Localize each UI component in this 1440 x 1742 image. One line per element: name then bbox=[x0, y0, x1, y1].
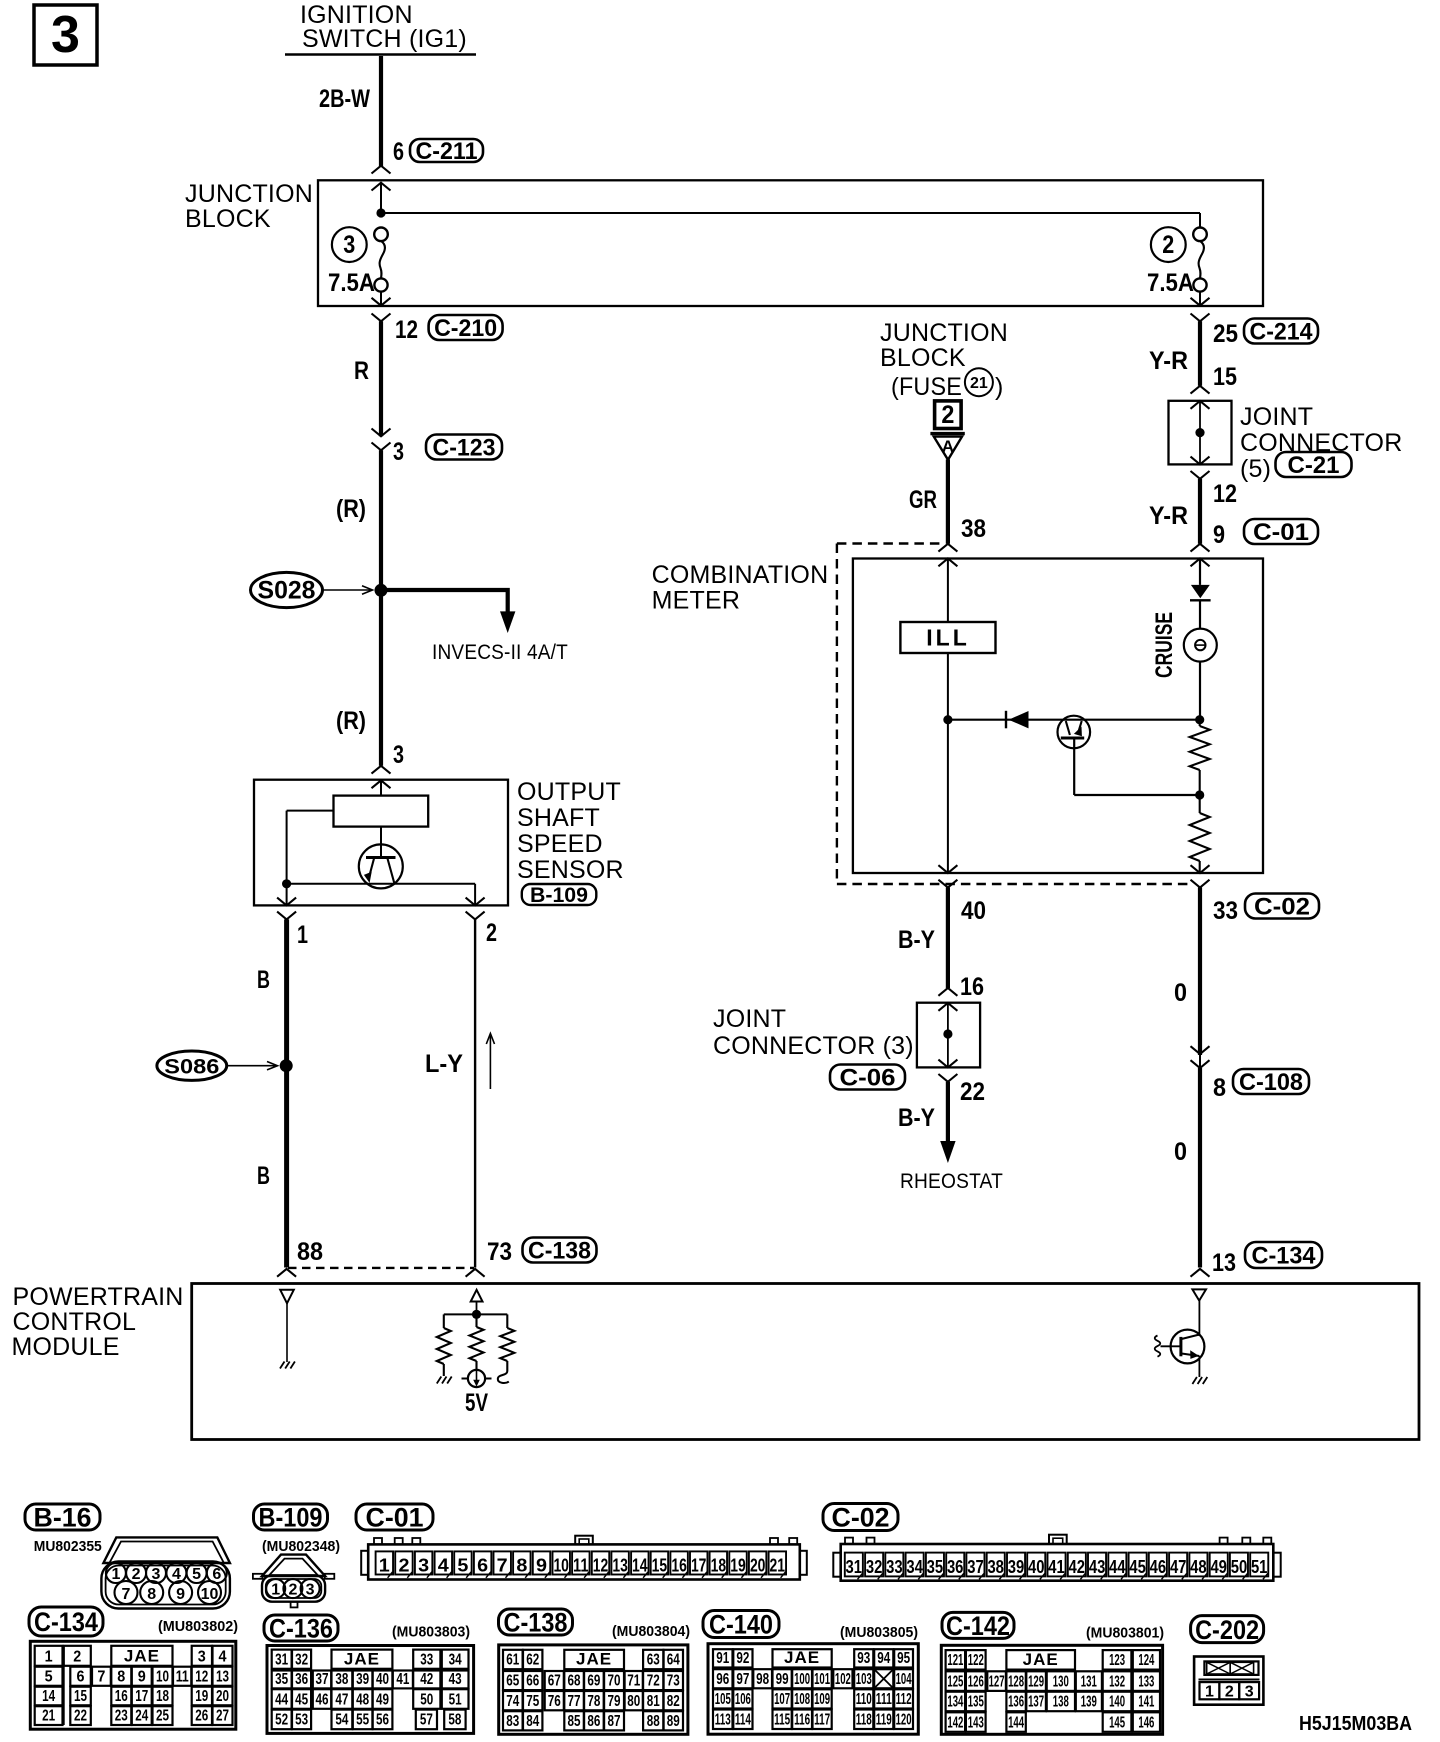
svg-text:9: 9 bbox=[176, 1586, 185, 1603]
svg-text:2: 2 bbox=[132, 1566, 141, 1583]
svg-text:110: 110 bbox=[856, 1691, 872, 1708]
svg-text:POWERTRAIN: POWERTRAIN bbox=[13, 1283, 184, 1311]
PCM 5V pull-up source bbox=[462, 1314, 492, 1417]
wire (R) lower segment bbox=[379, 590, 383, 766]
svg-text:26: 26 bbox=[195, 1708, 208, 1725]
svg-text:3: 3 bbox=[343, 231, 355, 259]
svg-text:B-Y: B-Y bbox=[898, 926, 935, 954]
svg-text:C-210: C-210 bbox=[434, 315, 497, 342]
svg-text:38: 38 bbox=[335, 1671, 348, 1688]
svg-text:2: 2 bbox=[1162, 231, 1174, 259]
sensor lead to transistor bbox=[380, 827, 382, 857]
svg-text:129: 129 bbox=[1028, 1673, 1044, 1690]
svg-text:77: 77 bbox=[568, 1693, 581, 1710]
connector C-140 pin grid bbox=[708, 1644, 918, 1735]
svg-text:105: 105 bbox=[715, 1691, 731, 1708]
svg-text:53: 53 bbox=[295, 1712, 308, 1729]
svg-text:114: 114 bbox=[735, 1712, 751, 1729]
svg-text:11: 11 bbox=[176, 1668, 189, 1685]
svg-text:46: 46 bbox=[1150, 1557, 1167, 1577]
svg-text:127: 127 bbox=[989, 1673, 1005, 1690]
wire label Y-R upper bbox=[1149, 347, 1188, 375]
svg-text:JUNCTION: JUNCTION bbox=[880, 319, 1008, 347]
svg-text:20: 20 bbox=[750, 1555, 766, 1575]
svg-text:ILL: ILL bbox=[926, 625, 970, 651]
svg-text:134: 134 bbox=[947, 1694, 963, 1711]
wire: fuse 3 to C-210 bbox=[380, 292, 382, 306]
svg-text:34: 34 bbox=[906, 1557, 923, 1577]
diode D1 (pointing left) bbox=[1006, 711, 1029, 729]
connector into combination meter pin 9 bbox=[1191, 544, 1210, 567]
pin label 22 bbox=[960, 1078, 985, 1106]
wire Y-R (C-214 to C-21) bbox=[1198, 321, 1202, 386]
wire label 2B-W bbox=[319, 85, 370, 113]
svg-text:82: 82 bbox=[667, 1693, 680, 1710]
svg-text:61: 61 bbox=[506, 1652, 519, 1669]
svg-text:113: 113 bbox=[715, 1712, 731, 1729]
svg-text:(5): (5) bbox=[1240, 455, 1271, 483]
svg-text:38: 38 bbox=[987, 1557, 1004, 1577]
connector B-109 face view bbox=[253, 1555, 334, 1608]
part number MU803805 bbox=[840, 1624, 918, 1641]
svg-text:95: 95 bbox=[897, 1650, 910, 1667]
svg-text:51: 51 bbox=[1251, 1557, 1268, 1577]
joint connector (3) box bbox=[917, 1003, 980, 1068]
svg-text:102: 102 bbox=[835, 1671, 851, 1688]
svg-text:JAE: JAE bbox=[576, 1650, 612, 1669]
svg-text:A: A bbox=[942, 437, 954, 456]
svg-text:109: 109 bbox=[814, 1691, 830, 1708]
RHEOSTAT label bbox=[900, 1170, 1003, 1193]
svg-text:12: 12 bbox=[395, 316, 418, 344]
svg-text:118: 118 bbox=[856, 1712, 872, 1729]
svg-text:103: 103 bbox=[856, 1671, 872, 1688]
svg-text:3: 3 bbox=[306, 1581, 315, 1598]
svg-text:Y-R: Y-R bbox=[1149, 502, 1188, 530]
PCM pin 88 ground bbox=[279, 1290, 295, 1369]
sensor pickup element bbox=[334, 796, 429, 827]
connector C-202 face view bbox=[1194, 1657, 1263, 1705]
svg-text:131: 131 bbox=[1081, 1673, 1097, 1690]
svg-text:C-06: C-06 bbox=[840, 1065, 896, 1092]
svg-text:6: 6 bbox=[212, 1566, 221, 1583]
wire ILL to pin 40 bbox=[947, 653, 949, 873]
svg-text:123: 123 bbox=[1109, 1652, 1125, 1669]
connector B-16 face view bbox=[101, 1537, 230, 1608]
svg-text:R: R bbox=[354, 357, 369, 385]
output shaft speed sensor box B-109 bbox=[254, 780, 508, 906]
svg-text:C-01: C-01 bbox=[1253, 519, 1309, 546]
svg-text:96: 96 bbox=[716, 1671, 729, 1688]
svg-text:17: 17 bbox=[691, 1555, 707, 1575]
svg-text:21: 21 bbox=[970, 375, 988, 392]
svg-text:141: 141 bbox=[1138, 1694, 1154, 1711]
wire B (pin1 to PCM 88) bbox=[284, 919, 289, 1267]
svg-text:85: 85 bbox=[568, 1713, 581, 1730]
svg-text:31: 31 bbox=[846, 1557, 863, 1577]
svg-text:33: 33 bbox=[886, 1557, 903, 1577]
svg-text:0: 0 bbox=[1174, 1138, 1187, 1166]
svg-text:135: 135 bbox=[968, 1694, 984, 1711]
svg-text:BLOCK: BLOCK bbox=[185, 205, 271, 233]
node R1/R2 bbox=[1195, 790, 1204, 799]
part number MU803802 bbox=[158, 1618, 238, 1635]
svg-text:25: 25 bbox=[156, 1708, 169, 1725]
svg-text:7.5A: 7.5A bbox=[1147, 269, 1194, 297]
svg-text:55: 55 bbox=[356, 1712, 369, 1729]
svg-text:C-02: C-02 bbox=[1254, 894, 1310, 921]
splice S028 bbox=[251, 572, 388, 607]
svg-text:40: 40 bbox=[961, 897, 986, 925]
svg-text:50: 50 bbox=[420, 1691, 433, 1708]
wire L-Y end at connector C-138 pin 73 bbox=[466, 1269, 485, 1277]
svg-text:(MU803803): (MU803803) bbox=[392, 1624, 470, 1641]
svg-text:2: 2 bbox=[288, 1581, 297, 1598]
svg-text:2: 2 bbox=[1225, 1684, 1234, 1701]
svg-text:(FUSE: (FUSE bbox=[891, 373, 962, 401]
svg-text:41: 41 bbox=[1048, 1557, 1065, 1577]
svg-text:(MU803805): (MU803805) bbox=[840, 1624, 918, 1641]
junction block (fuse 21) label bbox=[880, 319, 1008, 401]
connector label B-109 bbox=[254, 1503, 328, 1533]
svg-text:88: 88 bbox=[647, 1713, 660, 1730]
svg-text:98: 98 bbox=[756, 1671, 769, 1688]
part number MU803804 bbox=[612, 1623, 690, 1640]
svg-text:7: 7 bbox=[97, 1668, 105, 1685]
svg-text:88: 88 bbox=[297, 1238, 323, 1266]
svg-text:12: 12 bbox=[593, 1555, 609, 1575]
wire label GR bbox=[909, 486, 937, 514]
connector C-210 pin 12 bbox=[372, 298, 503, 344]
pin label 33 and connector C-02 bbox=[1213, 894, 1319, 926]
svg-text:92: 92 bbox=[736, 1650, 749, 1667]
svg-text:3: 3 bbox=[51, 6, 80, 64]
svg-text:SENSOR: SENSOR bbox=[517, 856, 624, 884]
connector pin 3 into sensor bbox=[372, 741, 405, 788]
svg-text:44: 44 bbox=[1109, 1557, 1126, 1577]
splice S086 bbox=[157, 1051, 293, 1080]
svg-text:L-Y: L-Y bbox=[425, 1050, 463, 1078]
powertrain control module box bbox=[192, 1284, 1419, 1440]
svg-text:3: 3 bbox=[393, 741, 404, 769]
svg-text:142: 142 bbox=[947, 1714, 963, 1731]
svg-text:C-202: C-202 bbox=[1195, 1615, 1259, 1645]
wire label 0 lower bbox=[1174, 1138, 1187, 1166]
svg-text:C-21: C-21 bbox=[1288, 452, 1340, 479]
wire L-Y (pin2 to PCM 73) bbox=[474, 919, 476, 1267]
joint connector exit pin 12 bbox=[1191, 457, 1210, 479]
svg-text:45: 45 bbox=[1129, 1557, 1146, 1577]
svg-text:54: 54 bbox=[335, 1712, 348, 1729]
ignition switch (IG1) label bbox=[285, 1, 476, 55]
dashed connector line C-138 bbox=[288, 1267, 474, 1269]
svg-text:H5J15M03BA: H5J15M03BA bbox=[1299, 1713, 1412, 1735]
svg-text:97: 97 bbox=[736, 1671, 749, 1688]
svg-text:130: 130 bbox=[1053, 1673, 1069, 1690]
svg-text:5: 5 bbox=[45, 1668, 53, 1685]
connector C-108 pin 8 bbox=[1191, 1046, 1210, 1068]
svg-text:137: 137 bbox=[1028, 1694, 1044, 1711]
svg-text:0: 0 bbox=[1174, 979, 1187, 1007]
svg-text:JOINT: JOINT bbox=[1240, 403, 1313, 431]
svg-text:46: 46 bbox=[316, 1691, 329, 1708]
svg-text:50: 50 bbox=[1231, 1557, 1248, 1577]
svg-text:C-134: C-134 bbox=[34, 1607, 98, 1637]
connector label C-140 bbox=[703, 1610, 779, 1640]
svg-text:(R): (R) bbox=[336, 707, 366, 735]
svg-text:1: 1 bbox=[111, 1566, 120, 1583]
svg-text:): ) bbox=[995, 373, 1004, 401]
svg-text:32: 32 bbox=[295, 1651, 308, 1668]
svg-text:10: 10 bbox=[201, 1586, 219, 1603]
resistor R1 bbox=[1190, 720, 1210, 795]
svg-text:JAE: JAE bbox=[1023, 1650, 1059, 1669]
svg-text:66: 66 bbox=[526, 1673, 539, 1690]
svg-text:81: 81 bbox=[647, 1693, 660, 1710]
meter exit pin 33 bbox=[1191, 865, 1210, 887]
meter exit pin 40 bbox=[938, 865, 957, 887]
svg-text:19: 19 bbox=[195, 1688, 208, 1705]
svg-text:GR: GR bbox=[909, 486, 937, 514]
svg-text:2: 2 bbox=[486, 919, 497, 947]
svg-text:48: 48 bbox=[1190, 1557, 1207, 1577]
sheet number 3 bbox=[34, 5, 97, 65]
svg-text:JAE: JAE bbox=[124, 1646, 160, 1665]
svg-text:MODULE: MODULE bbox=[12, 1333, 120, 1361]
sheet code H5J15M03BA bbox=[1299, 1713, 1412, 1735]
svg-text:S086: S086 bbox=[164, 1056, 219, 1079]
svg-text:45: 45 bbox=[295, 1691, 308, 1708]
svg-text:METER: METER bbox=[652, 587, 741, 615]
svg-text:107: 107 bbox=[774, 1691, 790, 1708]
wire: junction block internal bus bbox=[376, 183, 1200, 228]
svg-text:80: 80 bbox=[627, 1693, 640, 1710]
svg-text:10: 10 bbox=[553, 1555, 569, 1575]
svg-text:68: 68 bbox=[568, 1673, 581, 1690]
connector C-136 pin grid bbox=[267, 1646, 474, 1734]
svg-text:31: 31 bbox=[275, 1651, 288, 1668]
svg-text:C-02: C-02 bbox=[832, 1503, 890, 1533]
svg-text:27: 27 bbox=[216, 1708, 229, 1725]
resistor R2 bbox=[1190, 795, 1210, 873]
svg-text:78: 78 bbox=[587, 1693, 600, 1710]
svg-text:42: 42 bbox=[420, 1671, 433, 1688]
svg-text:58: 58 bbox=[448, 1712, 461, 1729]
junction block box bbox=[318, 180, 1263, 306]
sensor pin 1 bbox=[277, 898, 308, 949]
pin label 15 bbox=[1213, 363, 1237, 391]
svg-text:69: 69 bbox=[587, 1673, 600, 1690]
part number MU803803 bbox=[392, 1624, 470, 1641]
combination meter label bbox=[652, 561, 829, 615]
signal direction arrow bbox=[486, 1034, 494, 1090]
sensor pin 2 bbox=[466, 898, 497, 947]
svg-text:22: 22 bbox=[74, 1708, 87, 1725]
svg-text:47: 47 bbox=[335, 1691, 348, 1708]
svg-text:43: 43 bbox=[1089, 1557, 1106, 1577]
svg-text:70: 70 bbox=[608, 1673, 621, 1690]
svg-text:23: 23 bbox=[115, 1708, 128, 1725]
svg-text:12: 12 bbox=[1213, 480, 1237, 508]
svg-text:2B-W: 2B-W bbox=[319, 85, 370, 113]
wire R (C-210 to C-123) bbox=[379, 321, 383, 436]
wire Y-R (C-21 to meter) bbox=[1198, 479, 1202, 544]
svg-text:5: 5 bbox=[192, 1566, 201, 1583]
svg-text:89: 89 bbox=[667, 1713, 680, 1730]
wire label 0 upper bbox=[1174, 979, 1187, 1007]
svg-text:B-Y: B-Y bbox=[898, 1104, 935, 1132]
svg-text:15: 15 bbox=[74, 1688, 87, 1705]
meter transistor Q1 bbox=[1058, 716, 1200, 795]
svg-text:3: 3 bbox=[393, 438, 404, 466]
svg-text:5: 5 bbox=[457, 1555, 468, 1575]
cruise diode (pointing down) bbox=[1190, 585, 1211, 600]
connector label C-134 bbox=[29, 1607, 103, 1637]
svg-text:(MU802348): (MU802348) bbox=[262, 1538, 340, 1555]
svg-text:B-16: B-16 bbox=[34, 1503, 92, 1533]
svg-text:33: 33 bbox=[420, 1651, 433, 1668]
svg-text:16: 16 bbox=[960, 973, 984, 1001]
wire to ILL unit bbox=[947, 559, 949, 623]
pin label 9 and connector C-01 bbox=[1213, 519, 1318, 549]
svg-text:(MU803801): (MU803801) bbox=[1086, 1625, 1164, 1642]
svg-text:25: 25 bbox=[1213, 320, 1238, 348]
wire label B-Y upper bbox=[898, 926, 935, 954]
svg-text:5V: 5V bbox=[465, 1389, 488, 1417]
PCM output transistor Q2 bbox=[1155, 1330, 1208, 1384]
svg-text:51: 51 bbox=[449, 1691, 462, 1708]
svg-text:9: 9 bbox=[1213, 521, 1225, 549]
svg-text:104: 104 bbox=[896, 1671, 912, 1688]
svg-text:124: 124 bbox=[1138, 1652, 1154, 1669]
svg-text:41: 41 bbox=[396, 1671, 409, 1688]
wire B-Y to rheostat arrow bbox=[940, 1082, 955, 1163]
svg-text:64: 64 bbox=[667, 1652, 680, 1669]
svg-text:8: 8 bbox=[117, 1668, 125, 1685]
svg-text:10: 10 bbox=[156, 1668, 169, 1685]
svg-text:20: 20 bbox=[216, 1688, 229, 1705]
PCM sense resistor with continuation hook bbox=[498, 1314, 515, 1383]
CRUISE indicator lamp bbox=[1184, 629, 1217, 662]
wire GR bbox=[946, 460, 950, 544]
powertrain control module label bbox=[12, 1283, 184, 1361]
svg-text:122: 122 bbox=[968, 1652, 984, 1669]
fuse 2 (7.5A) bbox=[1147, 227, 1207, 297]
pin label 13 and connector C-134 bbox=[1212, 1242, 1322, 1277]
svg-text:108: 108 bbox=[794, 1691, 810, 1708]
PCM pin 13 input bbox=[1192, 1289, 1206, 1336]
svg-text:48: 48 bbox=[356, 1691, 369, 1708]
INVECS-II 4A/T label bbox=[432, 641, 568, 664]
svg-text:87: 87 bbox=[608, 1713, 621, 1730]
connector C-01 face view bbox=[361, 1536, 807, 1580]
svg-text:101: 101 bbox=[814, 1671, 830, 1688]
connector into combination meter pin 38 bbox=[938, 544, 957, 567]
svg-text:2: 2 bbox=[73, 1648, 81, 1665]
part number MU802348 bbox=[262, 1538, 340, 1555]
svg-text:6: 6 bbox=[393, 138, 404, 166]
branch arrow to INVECS-II 4A/T bbox=[381, 590, 515, 633]
sensor internal lead left bbox=[287, 811, 334, 884]
svg-text:36: 36 bbox=[295, 1671, 308, 1688]
svg-text:7: 7 bbox=[122, 1586, 131, 1603]
joint connector (3) label C-06 bbox=[713, 1005, 914, 1092]
wire label L-Y bbox=[425, 1050, 463, 1078]
svg-text:43: 43 bbox=[449, 1671, 462, 1688]
power feed triangle A bbox=[930, 434, 964, 460]
svg-text:33: 33 bbox=[1213, 897, 1238, 925]
connector label C-01 bbox=[356, 1503, 433, 1533]
svg-text:B-109: B-109 bbox=[530, 884, 588, 907]
svg-text:52: 52 bbox=[275, 1712, 288, 1729]
sensor output transistor bbox=[359, 844, 403, 888]
connector C-134 pin grid bbox=[30, 1641, 236, 1729]
svg-text:C-140: C-140 bbox=[709, 1610, 773, 1640]
svg-text:91: 91 bbox=[716, 1650, 729, 1667]
wire 0 (C-108 to PCM 13) bbox=[1198, 1068, 1202, 1268]
svg-text:126: 126 bbox=[968, 1673, 984, 1690]
svg-text:115: 115 bbox=[774, 1712, 790, 1729]
svg-text:SHAFT: SHAFT bbox=[517, 804, 600, 832]
PCM pin 73 input node bbox=[444, 1290, 508, 1319]
wire B-Y upper bbox=[946, 888, 950, 989]
junction block label bbox=[185, 180, 313, 233]
svg-text:73: 73 bbox=[667, 1673, 680, 1690]
illumination lamp unit ILL bbox=[900, 622, 995, 653]
svg-text:100: 100 bbox=[794, 1671, 810, 1688]
svg-text:16: 16 bbox=[115, 1688, 128, 1705]
svg-text:13: 13 bbox=[1212, 1249, 1236, 1277]
svg-text:JUNCTION: JUNCTION bbox=[185, 180, 313, 208]
svg-text:2: 2 bbox=[399, 1555, 410, 1575]
combination meter inner box bbox=[853, 559, 1263, 874]
connector label C-142 bbox=[942, 1611, 1014, 1641]
svg-text:7: 7 bbox=[497, 1555, 508, 1575]
svg-text:93: 93 bbox=[857, 1650, 870, 1667]
connector into joint connector (3) pin 16 bbox=[938, 988, 957, 1011]
svg-text:2: 2 bbox=[941, 401, 954, 429]
svg-text:3: 3 bbox=[198, 1648, 206, 1665]
connector into joint connector pin 15 bbox=[1191, 386, 1210, 409]
pin label 16 bbox=[960, 973, 984, 1001]
svg-text:CRUISE: CRUISE bbox=[1151, 612, 1178, 678]
wire (R) upper segment bbox=[379, 450, 383, 590]
svg-text:C-01: C-01 bbox=[366, 1503, 424, 1533]
svg-text:37: 37 bbox=[316, 1671, 329, 1688]
svg-text:44: 44 bbox=[275, 1691, 288, 1708]
svg-text:34: 34 bbox=[449, 1651, 462, 1668]
svg-text:C-138: C-138 bbox=[504, 1608, 568, 1638]
svg-text:76: 76 bbox=[548, 1693, 561, 1710]
svg-text:1: 1 bbox=[45, 1648, 53, 1665]
svg-text:C-136: C-136 bbox=[269, 1614, 333, 1644]
svg-text:S028: S028 bbox=[258, 577, 316, 605]
wire pin9 to cruise diode bbox=[1199, 559, 1201, 585]
svg-text:JAE: JAE bbox=[344, 1649, 380, 1668]
svg-text:19: 19 bbox=[730, 1555, 746, 1575]
svg-text:12: 12 bbox=[195, 1668, 208, 1685]
svg-text:75: 75 bbox=[526, 1693, 539, 1710]
connector label B-16 bbox=[25, 1503, 100, 1533]
wire 0 end at connector C-134 pin 13 bbox=[1191, 1269, 1210, 1277]
svg-text:39: 39 bbox=[1008, 1557, 1025, 1577]
CRUISE label bbox=[1151, 612, 1178, 678]
svg-text:C-123: C-123 bbox=[433, 435, 496, 462]
svg-text:SPEED: SPEED bbox=[517, 830, 603, 858]
pin label 38 bbox=[961, 515, 986, 543]
svg-text:13: 13 bbox=[216, 1668, 229, 1685]
wire label (R) upper bbox=[336, 495, 366, 523]
